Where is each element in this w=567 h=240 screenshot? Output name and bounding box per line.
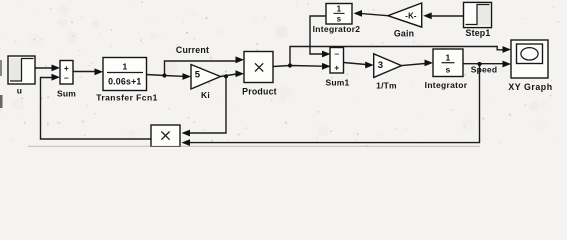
svg-text:3: 3 <box>378 60 383 71</box>
svg-text:-K-: -K- <box>405 12 417 21</box>
svg-text:Integrator: Integrator <box>425 80 468 90</box>
svg-text:Speed: Speed <box>471 65 498 75</box>
svg-text:u: u <box>17 86 22 96</box>
svg-text:1/Tm: 1/Tm <box>376 81 397 91</box>
svg-text:Step1: Step1 <box>466 28 491 38</box>
svg-text:5: 5 <box>195 70 201 81</box>
svg-text:1: 1 <box>446 53 451 63</box>
svg-text:Gain: Gain <box>394 29 414 39</box>
svg-text:+: + <box>334 63 339 73</box>
svg-text:Ki: Ki <box>201 90 210 100</box>
svg-text:Integrator2: Integrator2 <box>313 24 361 34</box>
svg-text:–: – <box>334 49 339 59</box>
svg-text:1: 1 <box>123 62 128 72</box>
svg-text:XY Graph: XY Graph <box>508 82 552 92</box>
svg-text:Sum: Sum <box>57 89 76 99</box>
svg-text:Current: Current <box>176 45 209 55</box>
svg-text:s: s <box>446 65 451 75</box>
svg-text:Transfer Fcn1: Transfer Fcn1 <box>96 93 158 103</box>
svg-text:+: + <box>64 63 69 73</box>
svg-text:Sum1: Sum1 <box>326 78 350 88</box>
svg-text:Product: Product <box>242 87 277 97</box>
svg-text:1: 1 <box>337 5 342 14</box>
svg-text:–: – <box>64 73 69 83</box>
svg-text:0.06s+1: 0.06s+1 <box>108 77 141 87</box>
svg-text:s: s <box>337 15 342 24</box>
